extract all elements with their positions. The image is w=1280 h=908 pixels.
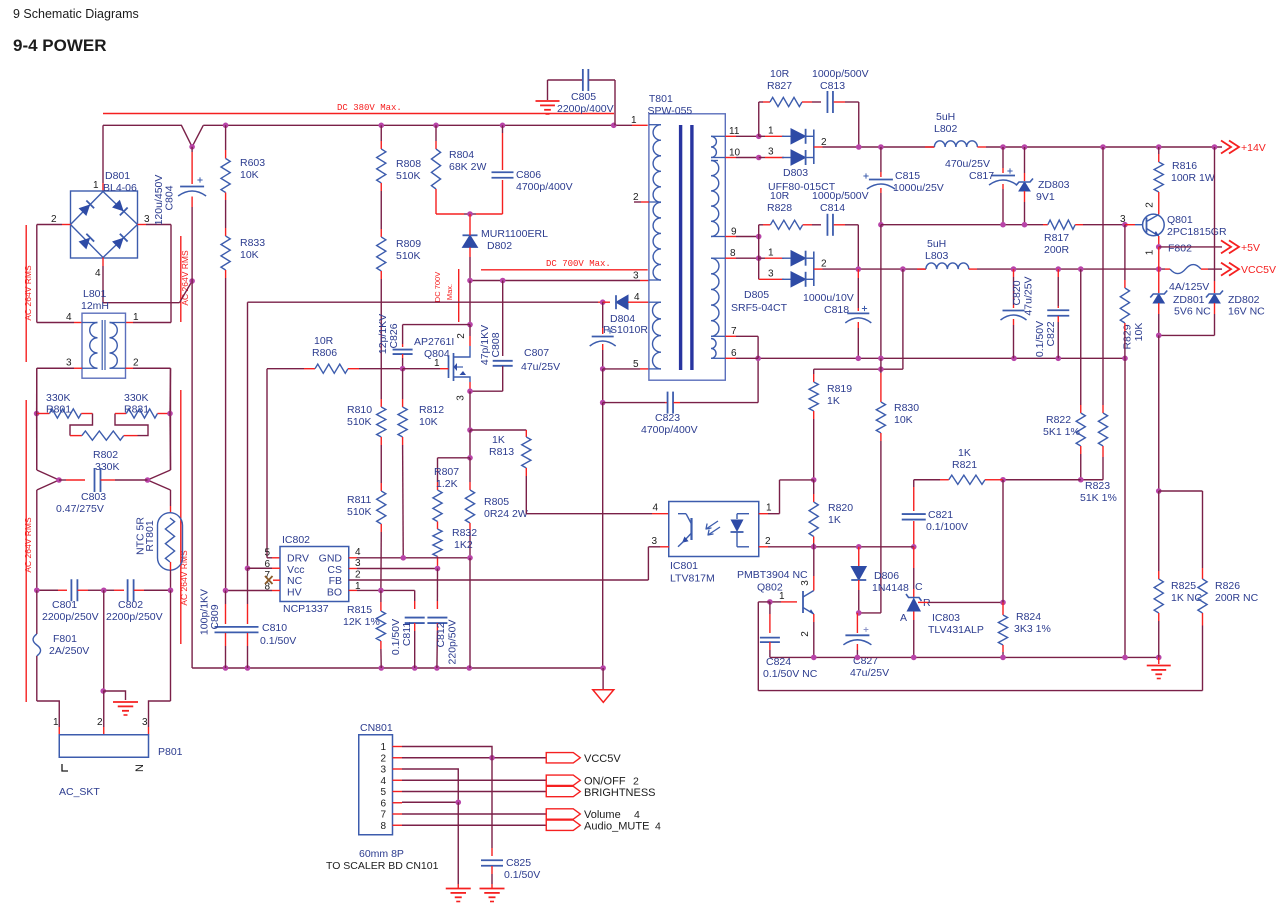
wire D803 output rail [814, 146, 823, 148]
resistor R807 [433, 490, 442, 522]
node gnd branch [100, 688, 106, 694]
svg-text:2: 2 [355, 570, 361, 581]
wire DC bus from bridge to T801 pin1 [103, 125, 203, 147]
svg-text:R817: R817 [1044, 232, 1069, 244]
resistor R801 330K [37, 413, 50, 415]
wire drain vertical [469, 281, 471, 325]
svg-text:330K: 330K [46, 392, 71, 404]
resistor R811 [377, 491, 386, 524]
svg-text:C820: C820 [1011, 280, 1023, 305]
flag Volume [546, 809, 580, 819]
svg-text:51K 1%: 51K 1% [1080, 492, 1117, 504]
T801 secondary winding 8-7 [711, 258, 719, 336]
svg-text:12K 1%: 12K 1% [343, 616, 380, 628]
resistor R806 [315, 364, 348, 373]
svg-text:L802: L802 [934, 123, 958, 135]
svg-text:0.1/50V: 0.1/50V [504, 869, 540, 881]
wire bus to primary gnd symbol [602, 668, 604, 690]
svg-text:C807: C807 [524, 347, 549, 359]
svg-text:SRF5-04CT: SRF5-04CT [731, 302, 788, 314]
svg-text:3: 3 [456, 395, 467, 401]
resistor R816 100R 1W [1158, 147, 1160, 154]
svg-text:0.1/50V: 0.1/50V [260, 635, 296, 647]
svg-text:4: 4 [634, 292, 640, 303]
resistor R833 [221, 236, 230, 270]
svg-text:ON/OFF: ON/OFF [584, 776, 626, 788]
svg-text:R820: R820 [828, 502, 853, 514]
wire R823 bottom [1102, 446, 1104, 457]
node opto line C821 [911, 544, 917, 550]
svg-text:C826: C826 [388, 323, 400, 348]
svg-text:R822: R822 [1046, 414, 1071, 426]
wire R802 to R831 [124, 435, 138, 437]
capacitor C818 1000u/10V [857, 269, 859, 278]
svg-text:0.47/275V: 0.47/275V [56, 503, 104, 515]
svg-text:CS: CS [327, 564, 342, 576]
svg-text:C813: C813 [820, 80, 845, 92]
wire CN801 pin1 [402, 747, 492, 756]
wire Q802 collector [813, 576, 815, 591]
svg-text:1N4148: 1N4148 [872, 582, 909, 594]
svg-text:R804: R804 [449, 149, 474, 161]
svg-text:10R: 10R [314, 335, 334, 347]
svg-text:PMBT3904 NC: PMBT3904 NC [737, 569, 808, 581]
svg-text:+5V: +5V [1241, 242, 1260, 254]
svg-text:R815: R815 [347, 604, 372, 616]
IC IC801 LTV817M optocoupler [669, 502, 759, 557]
svg-text:2: 2 [133, 358, 139, 369]
wire R810 to R811 [380, 437, 382, 445]
svg-text:R806: R806 [312, 347, 337, 359]
node gate junction [400, 366, 406, 372]
capacitor C809 100p/1KV [225, 591, 227, 605]
resistor R809 [377, 237, 386, 271]
svg-text:1: 1 [53, 717, 59, 728]
svg-text:1K NC: 1K NC [1171, 592, 1202, 604]
zener ZD802 16V NC [1214, 147, 1216, 281]
capacitor C806 [502, 125, 504, 133]
wire L801 pin3 down [37, 367, 74, 369]
svg-text:D805: D805 [744, 289, 769, 301]
svg-text:P801: P801 [158, 746, 183, 758]
svg-text:6: 6 [731, 348, 737, 359]
svg-text:2200p/250V: 2200p/250V [106, 611, 163, 623]
svg-text:C817: C817 [969, 170, 994, 182]
svg-text:R809: R809 [396, 238, 421, 250]
svg-text:C: C [915, 581, 923, 593]
no-connect X on pin 7 [273, 579, 280, 581]
flag VCC5V [1221, 263, 1231, 276]
diode D805 SRF5-04CT [782, 257, 791, 259]
svg-text:1: 1 [434, 358, 440, 369]
wire x-cap node verticals [36, 368, 38, 413]
ground for C805 [536, 100, 560, 102]
svg-text:4: 4 [634, 809, 640, 821]
svg-text:IC801: IC801 [670, 560, 698, 572]
resistor R808 [380, 125, 382, 141]
svg-text:N: N [134, 764, 146, 772]
svg-text:3: 3 [633, 271, 639, 282]
node R807 tap [467, 455, 473, 461]
svg-text:D803: D803 [783, 167, 808, 179]
wire FB to opto pin3 [349, 579, 649, 581]
capacitor C827 47u/25V [856, 613, 858, 633]
wire CS pin line [349, 568, 357, 570]
svg-text:10K: 10K [240, 249, 259, 261]
ground primary floating triangle [593, 690, 614, 703]
wire RT801 down [170, 562, 172, 570]
wire CN801 pin2 VCC5V [402, 757, 546, 759]
zener ZD803 9V1 [1024, 147, 1026, 173]
node R825 top [1156, 488, 1162, 494]
wire base loop to right side [758, 601, 770, 603]
svg-text:R807: R807 [434, 466, 459, 478]
svg-text:R832: R832 [452, 527, 477, 539]
svg-text:1: 1 [133, 312, 139, 323]
svg-text:ZD803: ZD803 [1038, 179, 1070, 191]
resistor R802 330K [82, 431, 124, 440]
svg-text:4A/125V: 4A/125V [1169, 281, 1209, 293]
label L pin [62, 764, 68, 771]
svg-text:7: 7 [380, 810, 386, 821]
svg-text:BL4-06: BL4-06 [103, 182, 137, 194]
svg-text:9-4 POWER: 9-4 POWER [13, 36, 107, 55]
wire T801 pin7 [725, 335, 736, 337]
svg-text:10K: 10K [419, 416, 438, 428]
wire R801 to R802 [81, 413, 92, 415]
svg-text:68K 2W: 68K 2W [449, 161, 486, 173]
svg-text:R827: R827 [767, 80, 792, 92]
wire T801 pin6 [725, 357, 736, 359]
svg-text:C811: C811 [401, 622, 413, 646]
wire snubber bottom rail [436, 213, 464, 215]
svg-text:2: 2 [765, 536, 771, 547]
wire D805 output rail [814, 268, 823, 270]
svg-text:R603: R603 [240, 157, 265, 169]
svg-text:DC 700V: DC 700V [433, 272, 442, 302]
annotation DC 700V Max line [481, 269, 648, 271]
IC IC802 NCP1337 [280, 547, 349, 602]
node bus junctions [189, 144, 195, 150]
node GND junctions [400, 555, 406, 561]
svg-text:1: 1 [93, 180, 99, 191]
svg-text:C809: C809 [209, 604, 221, 629]
svg-text:1K: 1K [958, 447, 971, 459]
svg-text:R828: R828 [767, 202, 792, 214]
svg-text:R819: R819 [827, 383, 852, 395]
capacitor C821 0.1/100V [913, 480, 915, 487]
node D806 bottom [856, 610, 862, 616]
wire +14V rail [986, 146, 1222, 148]
svg-text:Q801: Q801 [1167, 214, 1193, 226]
wire T801 pin5 [603, 368, 640, 370]
ground for C825 [480, 888, 505, 890]
wire C804 to HV rail down [191, 281, 193, 668]
fuse F801 2A/250V [36, 590, 38, 634]
wire R830 down to D806 [880, 433, 882, 441]
svg-text:RT801: RT801 [144, 520, 156, 551]
svg-text:HV: HV [287, 587, 302, 599]
svg-text:LTV817M: LTV817M [670, 573, 715, 585]
svg-text:Volume: Volume [584, 809, 621, 821]
svg-text:4: 4 [380, 776, 386, 787]
transformer T801 SPW-055 [649, 114, 725, 380]
capacitor C812 220p/50V [436, 569, 438, 602]
wire R819 rail [814, 368, 903, 370]
svg-text:200R NC: 200R NC [1215, 592, 1259, 604]
node R813 tap [467, 427, 473, 433]
svg-text:F802: F802 [1168, 243, 1192, 255]
resistor R823 51K [1102, 147, 1104, 405]
svg-text:5K1 1%: 5K1 1% [1043, 426, 1080, 438]
svg-text:R821: R821 [952, 459, 977, 471]
node +5V [1156, 244, 1162, 250]
svg-text:C815: C815 [895, 170, 920, 182]
capacitor C823 4700p/400V [603, 402, 665, 404]
svg-text:Max.: Max. [445, 284, 454, 300]
svg-text:1: 1 [766, 503, 772, 514]
wire Q804 source to node [469, 382, 471, 391]
wire GND down to bus [469, 558, 471, 668]
wire drain node to T801 pin3 [470, 280, 503, 282]
svg-text:C801: C801 [52, 599, 77, 611]
svg-text:DC 700V Max.: DC 700V Max. [546, 259, 611, 269]
svg-text:11: 11 [729, 126, 740, 137]
wire pin1 vertical to C825 [491, 755, 493, 758]
svg-text:4: 4 [655, 821, 661, 833]
svg-text:L803: L803 [925, 250, 949, 262]
wire ref line [918, 601, 928, 603]
capacitor C826 12p/1KV [403, 324, 470, 326]
svg-text:R808: R808 [396, 158, 421, 170]
node pin11 [756, 134, 762, 140]
resistor R821 1K [993, 479, 1003, 481]
node snubber-D802 [467, 211, 473, 217]
svg-text:2200p/250V: 2200p/250V [42, 611, 99, 623]
capacitor C808 47p/1KV [502, 281, 504, 357]
capacitor C822 0.1/50V [1057, 269, 1059, 277]
wire Vcc vertical to IC802 [247, 302, 249, 568]
svg-text:R812: R812 [419, 404, 444, 416]
svg-text:0R24 2W: 0R24 2W [484, 508, 528, 520]
svg-text:220p/50V: 220p/50V [447, 620, 459, 665]
wire DRV to gate [266, 369, 268, 558]
svg-text:4: 4 [95, 268, 101, 279]
svg-text:SPW-055: SPW-055 [648, 105, 693, 117]
flag ON/OFF [546, 775, 580, 785]
svg-text:1K: 1K [828, 514, 841, 526]
svg-text:5: 5 [380, 787, 386, 798]
T801 secondary winding 10-9 [711, 161, 719, 237]
wire R828 branch vertical [758, 225, 760, 279]
T801 secondary winding 11-10 [711, 136, 716, 157]
svg-text:60mm 8P: 60mm 8P [359, 848, 404, 860]
wire bridge output to bus [102, 125, 104, 183]
svg-text:C825: C825 [506, 857, 531, 869]
svg-text:AC 264V RMS: AC 264V RMS [180, 250, 190, 306]
svg-text:0.1/100V: 0.1/100V [926, 521, 968, 533]
wire C813 to output [858, 102, 860, 147]
node C803 right [145, 477, 151, 483]
node pin6 junction [455, 799, 461, 805]
svg-text:1K: 1K [492, 434, 505, 446]
svg-text:R829: R829 [1122, 324, 1134, 349]
svg-text:AC 264V RMS: AC 264V RMS [23, 517, 33, 573]
svg-text:+14V: +14V [1241, 142, 1266, 154]
wire R803 to R833 [225, 193, 227, 201]
svg-text:DRV: DRV [287, 553, 309, 565]
resistor R831 330K [126, 409, 157, 418]
svg-text:TLV431ALP: TLV431ALP [928, 624, 984, 636]
wire R806 to gate [348, 368, 359, 370]
resistor R805 0R24 2W [465, 490, 474, 523]
flag BRIGHTNESS [546, 786, 580, 796]
node D803 out junctions [856, 144, 862, 150]
svg-text:510K: 510K [396, 170, 421, 182]
resistor R832 [433, 529, 442, 557]
svg-text:2A/250V: 2A/250V [49, 645, 89, 657]
svg-text:12mH: 12mH [81, 300, 109, 312]
svg-text:47u/25V: 47u/25V [521, 361, 560, 373]
resistor R830 [880, 369, 882, 373]
resistor R829 10K [1124, 225, 1126, 280]
svg-text:D801: D801 [105, 170, 130, 182]
node C801 right [101, 587, 107, 593]
svg-text:D806: D806 [874, 570, 899, 582]
node drain junctions [467, 278, 473, 284]
capacitor C824 0.1/50V NC [769, 602, 771, 614]
svg-text:3: 3 [651, 536, 657, 547]
svg-text:2: 2 [456, 333, 467, 339]
wire divider line [1003, 479, 1081, 481]
svg-text:2PC1815GR: 2PC1815GR [1167, 226, 1227, 238]
wire zener bottoms [1159, 334, 1215, 336]
wire bridge pin4 to C804 negative [102, 258, 104, 267]
node ref [1000, 600, 1006, 606]
node C807 tap [600, 299, 606, 305]
diode D802 MUR1100ERL [469, 214, 471, 226]
node base junction [1122, 222, 1128, 228]
svg-text:3: 3 [142, 717, 148, 728]
svg-text:TO SCALER BD CN101: TO SCALER BD CN101 [326, 860, 439, 872]
resistor R813 [522, 437, 531, 468]
svg-text:D802: D802 [487, 240, 512, 252]
svg-text:C821: C821 [928, 509, 953, 521]
wire VCC5V rail [977, 268, 1165, 270]
svg-text:1: 1 [768, 126, 774, 137]
annotation AC 264V RMS left upper [25, 225, 27, 362]
wire Q802 base line [770, 601, 781, 603]
wire C805 left leg and ground [547, 80, 549, 100]
svg-text:R810: R810 [347, 404, 372, 416]
resistor R812 [402, 369, 404, 399]
node pin4 junction [189, 278, 195, 284]
wire down to R825 node [1158, 335, 1160, 491]
wire CN801 pin4 ON/OFF [402, 779, 546, 781]
capacitor C817 470u/25V [1002, 147, 1004, 168]
node zener bottom [1156, 333, 1162, 339]
svg-text:R823: R823 [1085, 480, 1110, 492]
wire R809 down to R810 [380, 271, 382, 279]
svg-text:2: 2 [97, 717, 103, 728]
svg-text:0.1/50V NC: 0.1/50V NC [763, 668, 818, 680]
transistor Q804 AP2761I [448, 356, 450, 378]
svg-text:47u/25V: 47u/25V [1023, 276, 1035, 315]
T801 primary winding 1 [653, 125, 661, 280]
svg-text:1000u/10V: 1000u/10V [803, 292, 854, 304]
svg-text:2: 2 [633, 776, 639, 788]
svg-text:2: 2 [380, 753, 386, 764]
svg-text:1: 1 [768, 248, 774, 259]
wire CN801 pin6 [402, 801, 458, 803]
svg-text:100R 1W: 100R 1W [1171, 172, 1215, 184]
svg-text:1.2K: 1.2K [436, 478, 458, 490]
svg-text:3: 3 [380, 765, 386, 776]
node C815 bottom [878, 222, 884, 228]
thermistor RT801 NTC 5R [158, 513, 183, 571]
svg-text:VCC5V: VCC5V [584, 753, 621, 765]
svg-text:5uH: 5uH [927, 238, 946, 250]
svg-text:9 Schematic Diagrams: 9 Schematic Diagrams [13, 7, 139, 21]
svg-text:1: 1 [779, 591, 785, 602]
svg-text:3: 3 [800, 580, 811, 586]
wire R833 down to HV pin and C809 [225, 270, 227, 278]
node base C824 [767, 599, 773, 605]
wire right column to RT801 [170, 490, 172, 506]
resistor R826 200R NC [1198, 579, 1207, 613]
svg-text:R830: R830 [894, 402, 919, 414]
svg-text:C812: C812 [435, 622, 447, 647]
wire primary ground bus [192, 667, 603, 669]
capacitor C815 1000u/25V [880, 147, 882, 172]
T801 primary winding 2 [652, 302, 661, 369]
svg-text:330K: 330K [124, 392, 149, 404]
capacitor C813 1000p/500V [802, 101, 812, 103]
svg-text:R831: R831 [124, 404, 149, 416]
svg-text:200R: 200R [1044, 244, 1070, 256]
svg-text:C823: C823 [655, 412, 680, 424]
node Vcc pin [245, 565, 251, 571]
resistor R820 1K [813, 480, 815, 494]
wire P801 pin1 [37, 701, 59, 727]
T801 secondary winding 7-6 [711, 339, 716, 359]
wire T801 pin9 [725, 236, 736, 238]
svg-text:L801: L801 [83, 288, 107, 300]
svg-text:3: 3 [66, 358, 72, 369]
flag +14V [1221, 141, 1231, 154]
ground chassis [113, 701, 138, 703]
node pin8 [756, 255, 762, 261]
svg-text:C803: C803 [81, 491, 106, 503]
svg-text:1: 1 [380, 742, 386, 753]
inductor L801 12mH [82, 313, 126, 378]
svg-text:5: 5 [633, 359, 639, 370]
svg-text:1: 1 [1145, 249, 1156, 255]
svg-text:1K: 1K [827, 395, 840, 407]
node D806 top [856, 544, 862, 550]
wire R807 branch [438, 457, 471, 459]
wire base rail [881, 224, 1043, 226]
svg-text:IC802: IC802 [282, 534, 310, 546]
svg-text:BO: BO [327, 587, 342, 599]
svg-text:AC 264V RMS: AC 264V RMS [179, 550, 189, 606]
wire C807 gnd vertical [602, 369, 604, 403]
wire CN801 pin5 BRIGHTNESS [402, 791, 546, 793]
wire P801 pin3 [170, 590, 172, 701]
node R831 right [167, 411, 173, 417]
svg-text:10K: 10K [240, 169, 259, 181]
node R822 bottom [1078, 477, 1084, 483]
